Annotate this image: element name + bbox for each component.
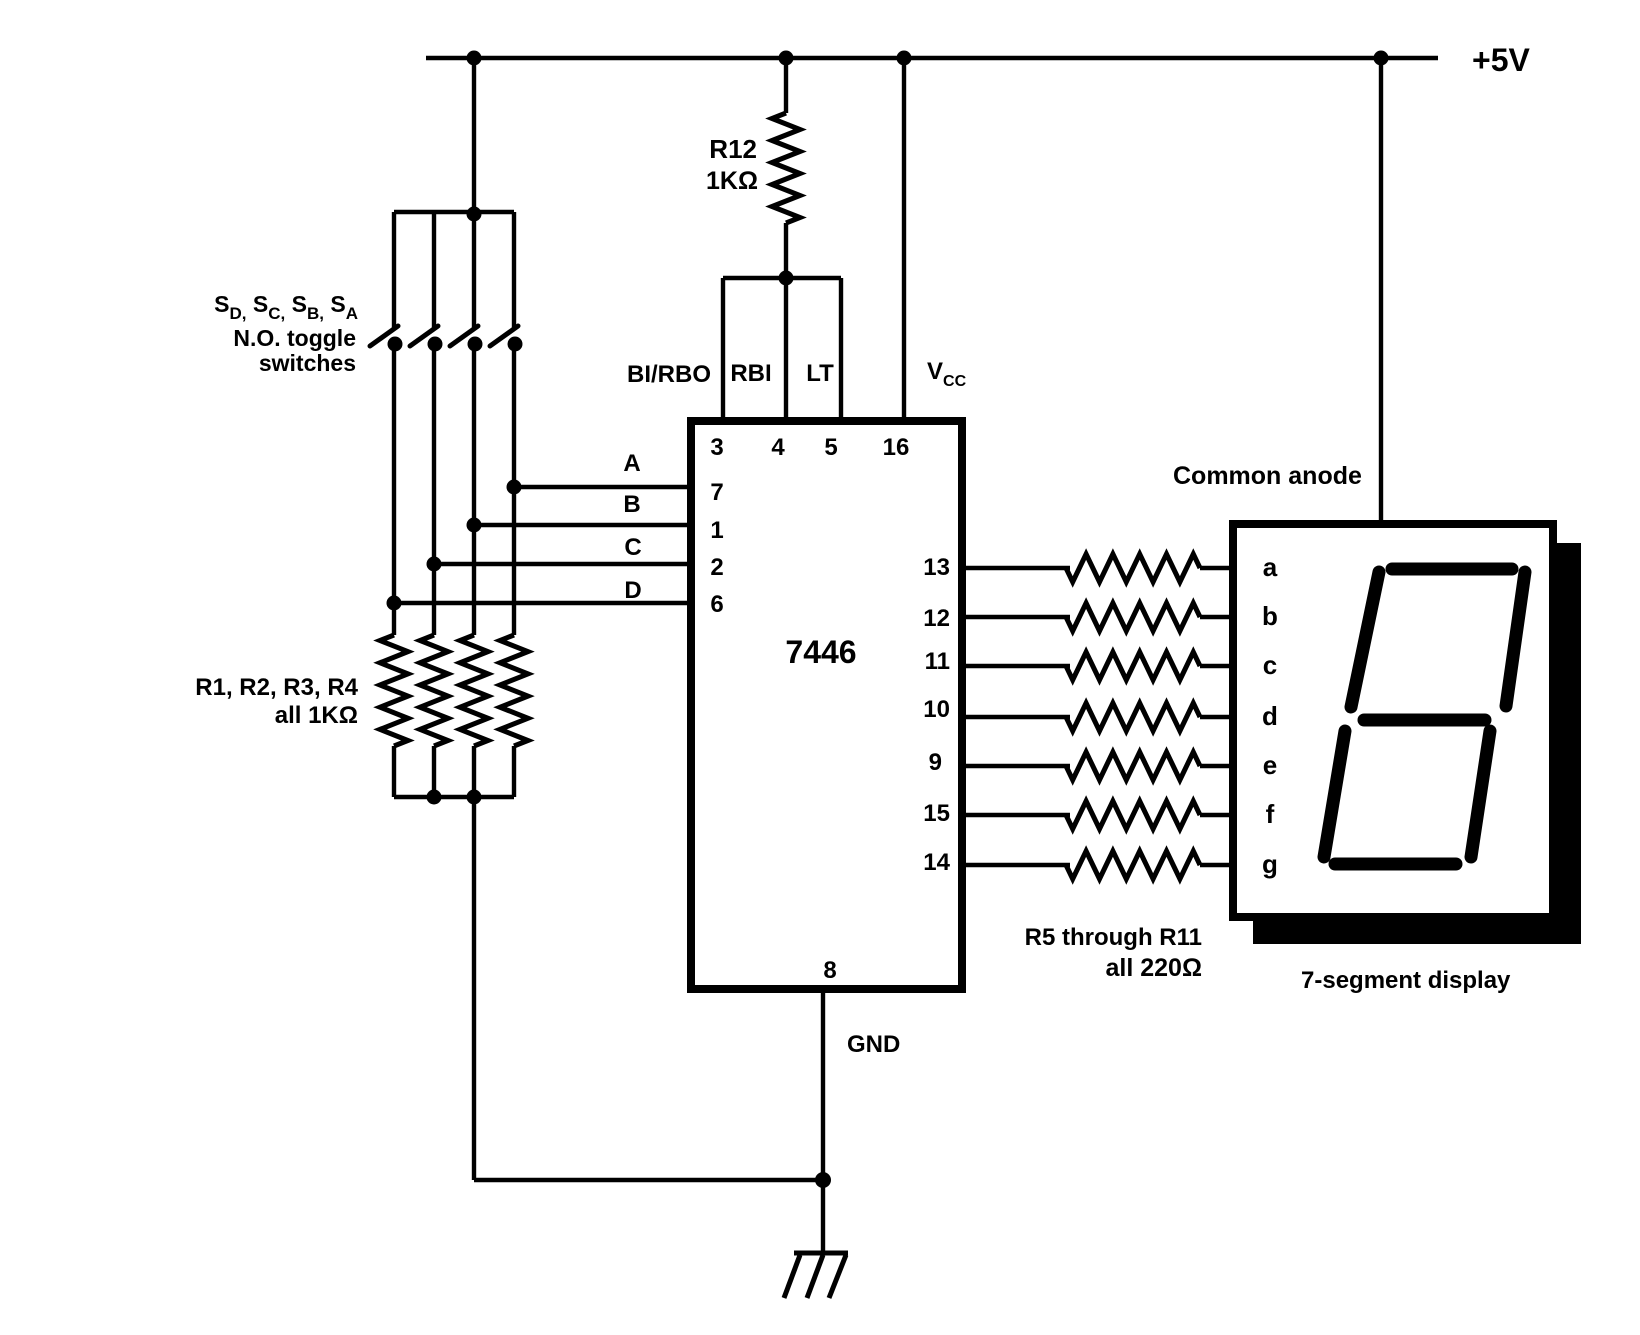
svg-text:2: 2 xyxy=(710,554,723,581)
switches label xyxy=(214,291,358,376)
R5-R11 value label xyxy=(1025,924,1202,982)
svg-text:16: 16 xyxy=(883,434,910,461)
svg-text:A: A xyxy=(623,450,640,477)
svg-text:b: b xyxy=(1262,601,1278,631)
wire to ground symbol xyxy=(821,1180,825,1253)
wire R3 lower lead xyxy=(472,746,476,797)
svg-text:BI/RBO: BI/RBO xyxy=(627,361,711,388)
resistor R11 xyxy=(1066,851,1200,879)
segment c bar xyxy=(1471,731,1490,857)
svg-text:g: g xyxy=(1262,849,1278,879)
svg-text:7: 7 xyxy=(710,479,723,506)
junction on +5V rail at Vcc xyxy=(897,51,912,66)
junction node A xyxy=(507,480,522,495)
junction on +5V rail at R12 xyxy=(779,51,794,66)
svg-text:8: 8 xyxy=(823,957,836,984)
switch SA contact xyxy=(508,337,523,352)
junction ground node xyxy=(815,1172,831,1188)
svg-text:1KΩ: 1KΩ xyxy=(706,167,758,195)
svg-text:e: e xyxy=(1263,750,1277,780)
svg-text:all 220Ω: all 220Ω xyxy=(1106,954,1203,982)
switch SB contact xyxy=(468,337,483,352)
switch SA blade xyxy=(490,326,518,346)
svg-text:R5 through R11: R5 through R11 xyxy=(1025,924,1202,951)
wire pin 11 to R7 xyxy=(960,664,1070,668)
resistor R5 xyxy=(1066,554,1200,582)
wire R9 to segment e xyxy=(1200,764,1233,768)
wire R1 lower lead xyxy=(392,746,396,797)
wire switch SB upper xyxy=(472,212,476,328)
svg-text:all 1KΩ: all 1KΩ xyxy=(275,702,358,729)
svg-text:R1, R2, R3, R4: R1, R2, R3, R4 xyxy=(195,674,358,701)
svg-text:12: 12 xyxy=(923,605,950,632)
svg-text:d: d xyxy=(1262,701,1278,731)
svg-text:c: c xyxy=(1263,650,1277,680)
wire pin 16 Vcc xyxy=(902,58,906,421)
ground xyxy=(784,1253,848,1298)
junction R12 to pin bus xyxy=(779,271,794,286)
svg-text:f: f xyxy=(1266,799,1275,829)
resistor R2 xyxy=(420,635,448,746)
resistor R7 xyxy=(1066,652,1200,680)
wire pin 9 to R9 xyxy=(960,764,1070,768)
wire switch SA upper xyxy=(512,212,516,328)
wire pin 15 to R10 xyxy=(960,813,1070,817)
wire pin 8 GND xyxy=(821,989,825,1180)
segment f bar xyxy=(1351,572,1379,707)
svg-text:1: 1 xyxy=(710,517,723,544)
wire pin 12 to R6 xyxy=(960,615,1070,619)
switch SC contact xyxy=(428,337,443,352)
wire ground run horizontal xyxy=(474,1178,823,1182)
switch SD blade xyxy=(370,326,398,346)
junction on +5V rail at display anode xyxy=(1374,51,1389,66)
svg-text:C: C xyxy=(624,534,641,561)
junction node D xyxy=(387,596,402,611)
junction on +5V rail at switch feed xyxy=(467,51,482,66)
node C wire to pin 2 xyxy=(434,562,691,566)
wire switch SA to node A and R4 xyxy=(512,344,516,635)
svg-text:7-segment display: 7-segment display xyxy=(1301,967,1511,994)
wire R7 to segment c xyxy=(1200,664,1233,668)
resistor R12 xyxy=(772,58,800,278)
switch SC blade xyxy=(410,326,438,346)
wire R10 to segment f xyxy=(1200,813,1233,817)
wire pin 4 RBI xyxy=(784,278,788,421)
switch SB blade xyxy=(450,326,478,346)
wire lamp-test bus top xyxy=(723,276,841,280)
wire pin 14 to R11 xyxy=(960,863,1070,867)
svg-text:GND: GND xyxy=(847,1031,900,1058)
svg-text:5: 5 xyxy=(824,434,837,461)
svg-text:11: 11 xyxy=(925,648,950,675)
svg-text:10: 10 xyxy=(923,696,950,723)
svg-text:RBI: RBI xyxy=(730,360,771,387)
op-amp U1 7446 IC body xyxy=(691,421,962,989)
wire switch SB to node B and R3 xyxy=(472,344,476,635)
node A wire to pin 7 xyxy=(514,485,691,489)
junction switch bus xyxy=(467,207,482,222)
wire R6 to segment b xyxy=(1200,615,1233,619)
R12 value label xyxy=(706,134,758,195)
svg-text:N.O. toggle: N.O. toggle xyxy=(233,325,356,351)
wire R5 to segment a xyxy=(1200,566,1233,570)
wire R8 to segment d xyxy=(1200,715,1233,719)
wire switch SC upper xyxy=(432,212,436,328)
wire resistor bottom bus xyxy=(394,795,514,799)
junction node C xyxy=(427,557,442,572)
wire switch SD to node D and R1 xyxy=(392,344,396,635)
resistor R6 xyxy=(1066,603,1200,631)
svg-text:+5V: +5V xyxy=(1472,42,1530,78)
7-segment display shadow xyxy=(1253,543,1581,944)
wire R2 lower lead xyxy=(432,746,436,797)
wire switch SD upper xyxy=(392,212,396,328)
svg-text:D: D xyxy=(624,577,641,604)
junction bottom bus R2 xyxy=(427,790,442,805)
7-segment display body xyxy=(1233,524,1553,917)
svg-text:7446: 7446 xyxy=(785,634,856,670)
wire R11 to segment g xyxy=(1200,863,1233,867)
R1-R4 value label xyxy=(195,674,358,729)
segment a xyxy=(1392,563,1512,576)
svg-text:14: 14 xyxy=(923,849,950,876)
svg-text:4: 4 xyxy=(771,434,785,461)
node D wire to pin 6 xyxy=(394,601,691,605)
segment e bar xyxy=(1324,731,1345,857)
segment d bar xyxy=(1335,858,1456,871)
resistor R1 xyxy=(380,635,408,746)
wire R4 lower lead xyxy=(512,746,516,797)
resistor R10 xyxy=(1066,801,1200,829)
svg-text:6: 6 xyxy=(710,591,723,618)
resistor R4 xyxy=(500,635,528,746)
svg-text:R12: R12 xyxy=(709,134,757,164)
svg-text:13: 13 xyxy=(923,554,950,581)
wire pin 10 to R8 xyxy=(960,715,1070,719)
svg-text:15: 15 xyxy=(923,800,950,827)
resistor R8 xyxy=(1066,703,1200,731)
wire +5V to common anode xyxy=(1379,58,1383,524)
wire bottom bus down to ground run xyxy=(472,797,476,1180)
switch SD contact xyxy=(388,337,403,352)
svg-text:LT: LT xyxy=(806,360,834,387)
svg-text:switches: switches xyxy=(259,350,356,376)
wire pin 3 BI/RBO xyxy=(721,278,725,421)
wire +5V rail xyxy=(426,56,1438,60)
resistor R3 xyxy=(460,635,488,746)
segment g bar xyxy=(1364,714,1485,727)
wire from +5V rail down to switch bus xyxy=(472,58,476,214)
segment b bar xyxy=(1506,572,1525,706)
node B wire to pin 1 xyxy=(474,523,691,527)
wire switch bus top xyxy=(394,210,514,214)
svg-text:a: a xyxy=(1263,552,1278,582)
junction bottom bus R3 xyxy=(467,790,482,805)
svg-text:9: 9 xyxy=(929,749,942,776)
resistor R9 xyxy=(1066,752,1200,780)
wire pin 5 LT xyxy=(839,278,843,421)
wire pin 13 to R5 xyxy=(960,566,1070,570)
svg-text:3: 3 xyxy=(710,434,723,461)
svg-text:B: B xyxy=(623,491,640,518)
svg-text:Common anode: Common anode xyxy=(1173,462,1362,490)
junction node B xyxy=(467,518,482,533)
wire switch SC to node C and R2 xyxy=(432,344,436,635)
